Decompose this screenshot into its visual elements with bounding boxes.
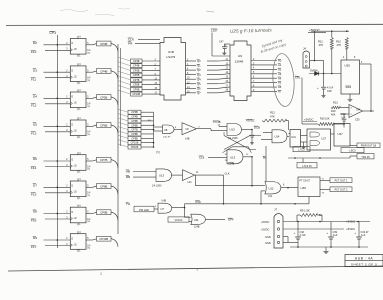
svg-text:PT CN-07: PT CN-07 xyxy=(300,181,311,183)
svg-text:D3: D3 xyxy=(33,68,37,72)
svg-text:U11: U11 xyxy=(194,218,199,222)
svg-text:U36: U36 xyxy=(301,186,307,190)
svg-text:.1uF: .1uF xyxy=(361,234,366,237)
svg-text:D6: D6 xyxy=(33,157,37,161)
svg-text:L9C3: L9C3 xyxy=(349,149,356,153)
svg-text:U4B: U4B xyxy=(162,201,167,203)
svg-text:U37: U37 xyxy=(338,132,344,136)
svg-text:R12: R12 xyxy=(270,111,275,115)
svg-text:CP3: CP3 xyxy=(50,31,57,35)
svg-text:13048: 13048 xyxy=(235,60,244,64)
svg-text:+5VDC: +5VDC xyxy=(261,227,269,231)
svg-text:CP5B: CP5B xyxy=(133,69,140,72)
svg-text:L04: L04 xyxy=(188,182,193,184)
svg-text:D8: D8 xyxy=(33,210,37,214)
svg-text:U21: U21 xyxy=(291,136,296,139)
svg-text:D4: D4 xyxy=(33,94,37,98)
svg-text:U14: U14 xyxy=(275,135,280,139)
svg-text:4.7uF: 4.7uF xyxy=(327,86,334,89)
svg-text:CP6B: CP6B xyxy=(100,123,107,127)
svg-text:F16: F16 xyxy=(31,219,37,223)
svg-text:VC1F3: VC1F3 xyxy=(175,219,183,222)
svg-text:L4B: L4B xyxy=(185,137,190,140)
svg-text:CP9B: CP9B xyxy=(133,88,140,91)
svg-text:U13: U13 xyxy=(159,174,165,178)
svg-text:.1uF: .1uF xyxy=(333,234,338,237)
svg-text:HUB - 4A: HUB - 4A xyxy=(355,256,373,260)
svg-text:CP8B: CP8B xyxy=(100,184,107,188)
svg-text:CP6B: CP6B xyxy=(131,124,138,127)
svg-text:F15: F15 xyxy=(31,192,37,196)
svg-text:PWR OUT 1B: PWR OUT 1B xyxy=(361,145,377,148)
svg-text:U13: U13 xyxy=(230,128,236,132)
svg-text:CP8B: CP8B xyxy=(131,133,138,136)
svg-text:U13: U13 xyxy=(230,156,236,160)
svg-text:47K: 47K xyxy=(337,43,342,47)
svg-text:TR2 45: TR2 45 xyxy=(361,155,370,159)
svg-text:C30: C30 xyxy=(355,119,360,122)
svg-text:CP7B: CP7B xyxy=(131,129,138,132)
svg-text:CP4B: CP4B xyxy=(131,116,138,119)
svg-text:LS279: LS279 xyxy=(167,55,176,59)
svg-text:40K: 40K xyxy=(331,113,336,116)
svg-text:C48: C48 xyxy=(327,90,332,93)
svg-text:1/4 LS?: 1/4 LS? xyxy=(163,137,171,139)
svg-text:4.7uF: 4.7uF xyxy=(300,234,307,237)
svg-text:F12: F12 xyxy=(31,103,37,107)
svg-text:CP9B: CP9B xyxy=(131,137,138,140)
svg-text:CP10B: CP10B xyxy=(131,142,139,145)
svg-text:+: + xyxy=(294,231,296,235)
svg-text:R13: R13 xyxy=(333,100,338,104)
svg-text:CP5B: CP5B xyxy=(100,95,107,99)
svg-text:U9: U9 xyxy=(238,54,242,58)
svg-text:CP5B: CP5B xyxy=(131,120,138,123)
svg-text:PW LED: PW LED xyxy=(139,208,149,212)
svg-text:555: 555 xyxy=(346,85,352,89)
svg-text:L24B: L24B xyxy=(194,227,200,229)
svg-text:U27: U27 xyxy=(322,138,327,141)
svg-text:+: + xyxy=(355,231,357,235)
svg-text:R9 1.5K: R9 1.5K xyxy=(300,209,310,213)
svg-text:C47: C47 xyxy=(219,41,224,44)
svg-text:F14: F14 xyxy=(31,166,37,170)
svg-text:+: + xyxy=(317,86,319,90)
svg-text:L7L9 26: L7L9 26 xyxy=(302,164,312,168)
svg-text:CP8B: CP8B xyxy=(133,84,140,87)
svg-text:.1uF: .1uF xyxy=(341,115,347,119)
svg-text:U8: U8 xyxy=(164,128,168,132)
svg-text:2: 2 xyxy=(100,272,102,276)
svg-text:F17: F17 xyxy=(31,245,37,249)
svg-text:L24B: L24B xyxy=(229,163,235,166)
svg-text:5VPW: 5VPW xyxy=(310,69,318,73)
svg-text:D5: D5 xyxy=(33,122,37,126)
svg-text:CP3B: CP3B xyxy=(131,111,138,114)
svg-text:+: + xyxy=(225,43,227,47)
svg-text:U7: U7 xyxy=(161,207,165,211)
svg-text:+: + xyxy=(327,231,329,235)
svg-text:CP11B: CP11B xyxy=(131,146,139,149)
svg-text:PR: PR xyxy=(128,41,133,45)
svg-text:P6: P6 xyxy=(156,151,160,155)
svg-text:+5VDC: +5VDC xyxy=(346,220,355,224)
svg-text:CP10B: CP10B xyxy=(99,237,108,241)
svg-text:U1B: U1B xyxy=(168,50,174,54)
svg-text:CP3B: CP3B xyxy=(133,60,140,63)
svg-text:D2: D2 xyxy=(33,41,37,45)
svg-text:CP9B: CP9B xyxy=(100,211,107,215)
svg-text:CP4B: CP4B xyxy=(133,65,140,68)
svg-text:J7: J7 xyxy=(274,208,277,212)
svg-text:47K: 47K xyxy=(319,43,324,47)
svg-text:CP7B: CP7B xyxy=(133,79,140,82)
svg-text:CP7B: CP7B xyxy=(100,158,107,162)
svg-text:+5VDC: +5VDC xyxy=(261,220,269,224)
svg-text:J4: J4 xyxy=(303,47,306,51)
svg-text:GND: GND xyxy=(265,241,271,245)
svg-text:CLK: CLK xyxy=(225,172,230,176)
svg-text:F13: F13 xyxy=(31,131,37,135)
svg-text:F10: F10 xyxy=(31,50,37,54)
svg-text:D9: D9 xyxy=(33,236,37,240)
svg-text:F11: F11 xyxy=(31,77,36,81)
svg-text:R10: R10 xyxy=(336,40,341,44)
svg-text:CP3B: CP3B xyxy=(100,42,107,46)
svg-text:L7C3: L7C3 xyxy=(298,148,305,152)
svg-text:1/4 LS00: 1/4 LS00 xyxy=(152,186,162,188)
svg-text:CP4B: CP4B xyxy=(100,69,107,73)
svg-text:D7: D7 xyxy=(33,183,37,187)
svg-text:SHEET 2 OF 3: SHEET 2 OF 3 xyxy=(351,263,377,267)
svg-text:R16 10K: R16 10K xyxy=(320,117,330,120)
svg-text:U12: U12 xyxy=(269,187,274,191)
svg-text:CP10B: CP10B xyxy=(132,93,140,96)
svg-text:GND: GND xyxy=(265,235,271,239)
svg-text:PCT OUT 2: PCT OUT 2 xyxy=(335,189,348,192)
svg-text:+5VDC: +5VDC xyxy=(304,118,313,122)
svg-text:CP6B: CP6B xyxy=(133,74,140,77)
svg-text:PCT OUT 1: PCT OUT 1 xyxy=(335,180,348,183)
svg-text:U35: U35 xyxy=(345,64,351,68)
svg-text:R11: R11 xyxy=(318,40,323,44)
svg-text:47K: 47K xyxy=(270,115,275,119)
